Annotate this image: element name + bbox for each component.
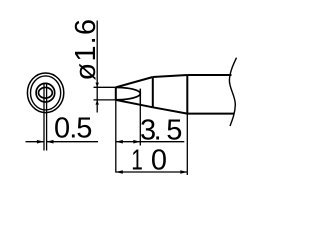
side view cone top edge	[153, 75, 188, 77]
svg-text:ø1.6: ø1.6	[70, 18, 102, 81]
end view chisel edge bar left line / 0.5 extension left	[43, 83, 45, 150]
dimension 0.5 left arrow	[37, 140, 44, 144]
side view break line	[229, 58, 236, 126]
svg-text:.: .	[154, 115, 162, 147]
side view top edge grind section	[116, 77, 153, 87]
side view junction vertical line	[152, 77, 154, 107]
ø1.6 extension line bottom	[94, 99, 116, 101]
end view outer circle	[27, 73, 63, 113]
side view shoulder vertical line	[186, 75, 188, 114]
dimension 3.5 extension line (apex vertical, below profile)	[139, 105, 141, 145]
end view plating ring	[30, 76, 60, 110]
ø1.6 extension line top	[94, 86, 116, 88]
dimension 3.5 left arrow	[116, 140, 123, 144]
dimension 3.5 / 10 left extension line (chisel edge, below profile)	[115, 100, 117, 173]
dimension 3.5 right arrow	[133, 140, 140, 144]
side view shank top edge	[187, 74, 231, 76]
side view chisel edge	[115, 87, 117, 100]
dimension 0.5 right arrow	[47, 140, 54, 144]
svg-text:5: 5	[166, 115, 182, 147]
ø1.6 dimension line vertical	[96, 21, 98, 113]
svg-text:1: 1	[131, 144, 143, 176]
ø1.6 upper arrow (points down)	[96, 83, 99, 88]
svg-text:0: 0	[54, 113, 70, 145]
dimension 3.5 line with leader	[116, 141, 185, 143]
dimension 10 right extension line (shoulder, below profile)	[186, 114, 188, 175]
svg-text:5: 5	[76, 113, 92, 145]
dimension 0.5 line left part	[26, 141, 44, 143]
end view inner circle	[36, 83, 55, 102]
side view shank bottom edge	[187, 113, 234, 115]
dimension 10 right arrow	[180, 170, 187, 174]
ø1.6 lower arrow (points up)	[96, 100, 99, 105]
end view grind ellipse	[39, 87, 53, 98]
side view bottom edge grind section	[116, 100, 153, 107]
dimension 0.5 line right part	[47, 141, 99, 143]
dimension 10 left arrow	[116, 170, 123, 174]
side view cone bottom edge	[153, 107, 188, 113]
side view grind face half ellipse	[116, 87, 141, 99]
side view grind apex vertical line	[139, 89, 141, 106]
svg-text:0: 0	[151, 145, 167, 177]
dimension 10 line	[116, 171, 188, 173]
end view chisel edge bar right line / 0.5 extension right	[46, 83, 48, 150]
